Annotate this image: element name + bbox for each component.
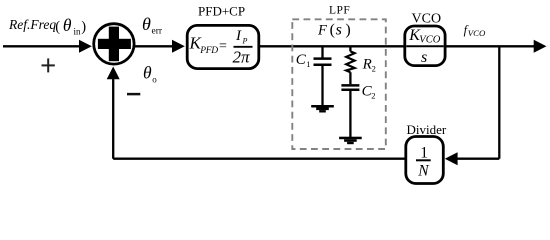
svg-text:C: C — [296, 52, 307, 68]
wire divider output feedback left — [113, 158, 404, 160]
svg-text:(: ( — [55, 19, 60, 35]
svg-text:LPF: LPF — [329, 4, 350, 16]
svg-text:F: F — [317, 22, 327, 38]
svg-text:P: P — [242, 36, 248, 45]
svg-text:N: N — [417, 163, 430, 180]
svg-text:in: in — [74, 27, 82, 37]
svg-text:PFD+CP: PFD+CP — [198, 3, 245, 18]
LPF dashed filter box — [292, 19, 386, 149]
wire summing junction to PFD — [135, 45, 174, 47]
svg-text:(: ( — [330, 22, 335, 39]
svg-text:): ) — [345, 22, 350, 39]
svg-text:1: 1 — [306, 59, 310, 69]
svg-text:VCO: VCO — [419, 35, 440, 46]
svg-text:1: 1 — [420, 144, 428, 161]
ground for C2 — [339, 137, 362, 140]
resistor R2 — [349, 46, 351, 51]
block VCO (K_VCO / s) — [405, 26, 445, 66]
svg-text:s: s — [336, 22, 342, 39]
block Divider (1/N) — [406, 137, 444, 184]
svg-text:θ: θ — [63, 15, 72, 35]
svg-text:=: = — [219, 39, 227, 54]
svg-text:2: 2 — [371, 90, 375, 100]
svg-text:θ: θ — [142, 14, 151, 34]
svg-text:s: s — [421, 49, 427, 66]
svg-text:I: I — [235, 28, 242, 44]
wire feedback tap down — [498, 46, 500, 158]
svg-text:o: o — [152, 75, 157, 85]
svg-text:): ) — [81, 19, 86, 35]
svg-text:Ref.Freq: Ref.Freq — [8, 17, 56, 32]
svg-text:VCO: VCO — [468, 28, 486, 38]
wire feedback to divider — [457, 158, 500, 160]
svg-text:2: 2 — [372, 64, 376, 74]
svg-text:VCO: VCO — [412, 12, 442, 27]
ground for C1 — [311, 105, 334, 108]
wire feedback up to summing junction — [112, 79, 114, 159]
capacitor C2 — [349, 72, 351, 84]
svg-text:Divider: Divider — [407, 122, 447, 137]
svg-text:R: R — [362, 57, 372, 73]
plus sign label at summing input — [42, 64, 55, 66]
svg-text:θ: θ — [143, 63, 152, 83]
svg-text:PFD: PFD — [199, 46, 218, 56]
svg-text:2π: 2π — [233, 47, 251, 66]
minus sign label at summing feedback input — [127, 93, 140, 96]
block PFD+CP (K_PFD = I_P/2pi) — [187, 25, 259, 68]
capacitor C1 — [321, 46, 323, 57]
wire input to summing junction — [3, 45, 80, 47]
wire PFD to VCO through LPF — [260, 45, 404, 47]
summing junction — [94, 24, 134, 64]
wire VCO output — [446, 45, 535, 47]
svg-text:err: err — [152, 27, 163, 37]
